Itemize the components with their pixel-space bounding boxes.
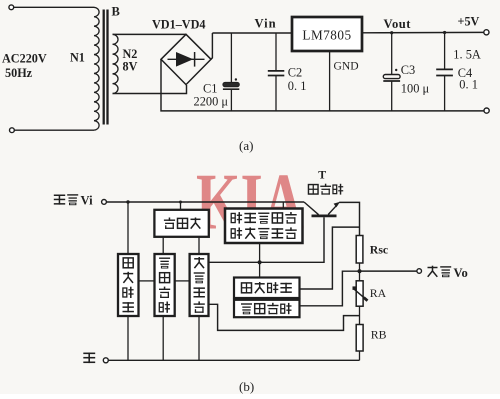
- label output Vo: [428, 266, 438, 277]
- capacitor C2 0.1: [275, 33, 277, 71]
- ground terminal: [103, 358, 108, 363]
- transistor T pass element: [304, 202, 319, 215]
- pin GND: [329, 51, 331, 111]
- block voltage reference: [155, 254, 175, 316]
- svg-text:RB: RB: [371, 328, 387, 342]
- wire current source to error amp: [198, 237, 200, 254]
- block thermal protection: [234, 300, 300, 317]
- wire reference to error amp: [175, 280, 190, 282]
- svg-text:AC220V: AC220V: [2, 52, 47, 66]
- capacitor C4 0.1: [444, 33, 446, 70]
- block error amplifier: [190, 254, 209, 316]
- svg-text:+5V: +5V: [458, 15, 480, 29]
- output terminal Vo: [417, 269, 422, 274]
- output terminal return: [484, 108, 489, 113]
- wire short-circuit sense: [300, 227, 360, 289]
- wire Rsc to output node: [359, 263, 361, 271]
- resistor RA adjustable: [356, 281, 363, 306]
- svg-text:0. 1: 0. 1: [459, 78, 478, 92]
- block constant current source: [154, 210, 208, 237]
- svg-text:Vo: Vo: [454, 266, 468, 280]
- wire startup to ground: [127, 316, 129, 360]
- svg-text:C1: C1: [203, 82, 217, 96]
- wire error amp to ground: [198, 316, 200, 360]
- svg-text:0. 1: 0. 1: [288, 79, 307, 93]
- wire emitter to Rsc: [339, 202, 359, 235]
- svg-text:1. 5A: 1. 5A: [453, 48, 481, 62]
- wire bridge - to ground rail: [161, 59, 484, 111]
- svg-text:GND: GND: [334, 60, 359, 73]
- wire startup to reference: [139, 280, 155, 282]
- svg-text:LM7805: LM7805: [302, 28, 351, 43]
- node C4 top: [443, 31, 446, 34]
- wire bridge + to rail: [211, 33, 212, 59]
- svg-text:50Hz: 50Hz: [5, 66, 33, 80]
- svg-text:2200 μ: 2200 μ: [194, 95, 229, 109]
- svg-text:100 μ: 100 μ: [401, 82, 430, 96]
- wire current source stub: [180, 202, 182, 210]
- svg-text:Vin: Vin: [255, 17, 277, 31]
- svg-text:VD1–VD4: VD1–VD4: [152, 18, 206, 32]
- svg-text:T: T: [318, 168, 326, 182]
- svg-text:N1: N1: [70, 51, 85, 65]
- wire output to RA: [359, 271, 361, 281]
- wire error amp to divider tap: [209, 304, 360, 330]
- resistor RB: [356, 325, 363, 352]
- svg-text:Rsc: Rsc: [370, 243, 388, 257]
- svg-text:C2: C2: [288, 66, 302, 80]
- block short-circuit protection: [234, 278, 300, 299]
- wire AC bottom: [14, 129, 94, 131]
- ground rail: [108, 359, 359, 361]
- capacitor C1 2200u electrolytic: [230, 33, 232, 82]
- svg-text:C3: C3: [401, 63, 415, 77]
- wire startup drop: [127, 202, 129, 254]
- label ground: [83, 353, 95, 364]
- svg-text:(a): (a): [239, 138, 253, 153]
- wire reference to ground: [162, 316, 164, 360]
- wire N2 bottom to bridge: [113, 85, 187, 94]
- output terminal +5V: [484, 30, 489, 35]
- AC input terminal bottom: [10, 128, 15, 133]
- wire thermal to output: [300, 271, 360, 306]
- wire RB to ground rail: [359, 351, 361, 360]
- wire SOA box stub: [282, 202, 284, 209]
- transformer secondary winding N2: [113, 34, 119, 93]
- svg-text:RA: RA: [370, 286, 387, 300]
- svg-text:Vout: Vout: [384, 17, 412, 31]
- label input Vi: [54, 195, 65, 205]
- wire AC top: [14, 6, 94, 8]
- capacitor C3 100u electrolytic: [391, 33, 393, 75]
- wire top rail Vout: [362, 31, 484, 33]
- input terminal Vi: [102, 200, 107, 205]
- block startup circuit: [118, 254, 139, 316]
- wire SOA to short-circuit protection: [259, 243, 261, 278]
- regulator U1 LM7805: [292, 17, 362, 51]
- block SOA protection: [225, 209, 303, 244]
- wire RA to RB: [359, 306, 361, 324]
- node base drive: [258, 260, 262, 264]
- wire top rail Vin: [212, 32, 292, 34]
- resistor Rsc: [356, 236, 363, 264]
- node output: [357, 269, 361, 273]
- transformer T1 primary winding N1: [94, 7, 99, 130]
- node startup tap: [126, 200, 129, 203]
- label pass transistor: [308, 185, 318, 194]
- svg-text:8V: 8V: [123, 60, 138, 74]
- node C3 top: [390, 31, 393, 34]
- wire error amp to base: [209, 217, 325, 262]
- bridge rectifier VD1-VD4: [161, 34, 211, 84]
- svg-text:Vi: Vi: [81, 194, 94, 208]
- wire current source to reference: [162, 237, 164, 254]
- transformer core: [103, 10, 105, 125]
- wire input rail: [106, 201, 304, 203]
- wire output: [360, 270, 417, 272]
- svg-text:(b): (b): [239, 379, 254, 394]
- svg-text:B: B: [112, 5, 120, 19]
- AC input terminal top: [9, 5, 14, 10]
- wire N2 top to bridge: [113, 33, 187, 35]
